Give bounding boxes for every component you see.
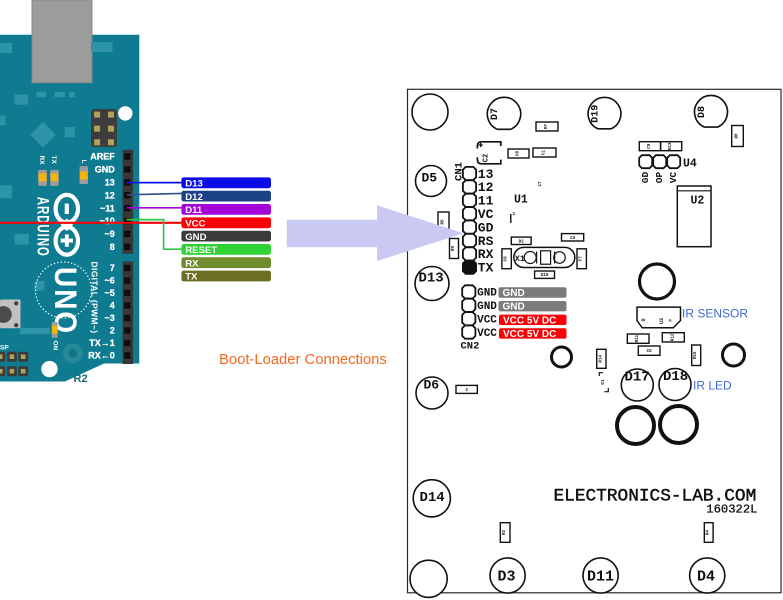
U1 pin1 mark [510, 214, 512, 223]
svg-text:O: O [641, 318, 647, 321]
svg-text:D4: D4 [697, 569, 715, 586]
svg-text:ON: ON [52, 341, 59, 351]
resistor R14 [597, 349, 606, 368]
svg-text:D13: D13 [185, 179, 203, 190]
capacitor C4 [562, 234, 584, 241]
capacitor C8 [508, 149, 529, 158]
svg-text:L: L [80, 160, 87, 164]
svg-text:D3: D3 [498, 569, 516, 586]
svg-text:D11: D11 [185, 205, 203, 216]
TX LED [50, 170, 59, 186]
svg-text:D11: D11 [587, 569, 614, 586]
resistor R8 [732, 126, 744, 147]
via ring left [552, 347, 572, 367]
pin labels strip2 [88, 263, 115, 361]
svg-text:VC: VC [668, 172, 679, 184]
LED D7 [487, 97, 520, 129]
svg-text:AREF: AREF [90, 152, 115, 162]
svg-text:SP: SP [0, 344, 9, 351]
svg-text:C8: C8 [517, 151, 521, 157]
svg-text:13: 13 [105, 178, 115, 188]
svg-text:D14: D14 [420, 490, 445, 506]
CN1 pad GD [463, 221, 476, 234]
LED D3 [490, 558, 525, 593]
svg-text:U1: U1 [514, 194, 528, 207]
svg-text:CN2: CN2 [461, 341, 480, 353]
svg-text:GND: GND [503, 288, 525, 299]
svg-text:IR LED: IR LED [693, 378, 732, 392]
pin header strip 1 [123, 150, 134, 254]
LED labels [38, 156, 87, 166]
IR sensor body U3 [637, 307, 681, 328]
svg-text:D6: D6 [424, 378, 440, 393]
svg-text:U2: U2 [691, 195, 705, 208]
svg-text:TX→1: TX→1 [89, 338, 115, 348]
svg-text:C2: C2 [482, 154, 490, 162]
svg-text:GND: GND [95, 165, 116, 175]
IR LED ring 1 [617, 407, 654, 444]
svg-text:~10: ~10 [100, 216, 115, 226]
svg-text:IR SENSOR: IR SENSOR [682, 306, 748, 320]
svg-text:VCC 5V DC: VCC 5V DC [503, 315, 556, 326]
net label D11 [181, 204, 271, 216]
svg-text:D2: D2 [519, 240, 525, 244]
svg-text:C7: C7 [580, 256, 584, 262]
svg-text:01: 01 [600, 379, 606, 385]
LED D4 [690, 558, 725, 593]
big arrow [287, 205, 464, 261]
CN1 pad 12 [463, 180, 476, 193]
svg-text:GND: GND [503, 302, 525, 313]
net label D13 [181, 177, 271, 189]
net label GND (pcb) [499, 287, 567, 299]
svg-text:RX←0: RX←0 [88, 351, 115, 361]
svg-text:C1: C1 [543, 150, 547, 156]
CN1 pad TX [463, 261, 476, 274]
svg-text:R2: R2 [74, 373, 88, 385]
svg-text:C9: C9 [648, 143, 652, 149]
net label TX [181, 271, 271, 283]
capacitor C5 [638, 346, 660, 355]
CN2 pad GND [462, 299, 475, 312]
svg-text:D5: D5 [422, 171, 438, 186]
LED D14 [413, 480, 450, 517]
net label RX [181, 257, 271, 269]
svg-text:TX: TX [50, 156, 57, 165]
capacitor C1 [533, 148, 556, 157]
svg-text:U3: U3 [659, 318, 665, 324]
svg-text:R15: R15 [694, 351, 698, 359]
resistor R3 [500, 523, 510, 543]
svg-text:8: 8 [110, 242, 115, 252]
resistor R12 [662, 333, 684, 342]
CN2 pad VCC [462, 326, 475, 339]
svg-text:D19: D19 [591, 105, 602, 123]
diode D2 [511, 237, 531, 244]
svg-text:Boot-Loader Connections: Boot-Loader Connections [219, 352, 387, 368]
capacitor C2 (electrolytic silk) [477, 142, 500, 164]
ICSP header [91, 109, 117, 147]
svg-text:VCC: VCC [185, 219, 205, 230]
CN1 pad RX [463, 247, 476, 260]
net label D12 [181, 191, 271, 203]
resistor R4 [704, 523, 713, 543]
svg-text:D13: D13 [419, 271, 444, 287]
Arduino UNO board [0, 35, 139, 382]
svg-text:GND: GND [477, 288, 497, 300]
U4 pad OP [653, 155, 666, 168]
U4 pad GD [639, 155, 652, 168]
LED D11 (pcb) [583, 558, 618, 593]
svg-text:GND: GND [477, 301, 497, 313]
wire D11 (purple) [127, 207, 182, 209]
CN1 pad 11 [463, 194, 476, 207]
LED D19 [588, 97, 621, 128]
U4 pad VC [667, 155, 680, 168]
svg-text:160322L: 160322L [706, 503, 757, 517]
svg-text:1: 1 [513, 211, 516, 217]
net label VCC [181, 217, 271, 229]
capacitor C7 [577, 249, 586, 269]
reset button [0, 300, 21, 329]
svg-text:R3: R3 [503, 530, 507, 536]
resistor R7 [536, 122, 558, 131]
svg-text:R12: R12 [671, 333, 675, 341]
svg-text:R14: R14 [599, 355, 603, 363]
svg-text:R5: R5 [442, 219, 446, 225]
capacitor C9 [639, 142, 660, 151]
svg-text:C6: C6 [505, 256, 509, 262]
resistor R5 (under arrow) [438, 212, 449, 232]
svg-text:R8: R8 [736, 133, 740, 139]
net label GND 2 (pcb) [499, 301, 567, 313]
L LED [80, 166, 89, 184]
IR sensor lens ring [640, 264, 675, 299]
svg-text:2: 2 [110, 326, 115, 336]
svg-text:C4: C4 [570, 237, 576, 241]
ON LED [52, 322, 58, 338]
svg-text:~9: ~9 [105, 229, 115, 239]
RX LED [38, 170, 47, 186]
net label VCC 5V DC 2 [499, 328, 567, 340]
svg-text:U4: U4 [683, 158, 697, 171]
LED D13 (pcb) [415, 267, 449, 301]
svg-text:C5: C5 [647, 350, 653, 354]
diode D10 [535, 271, 555, 278]
mounting hole bottom-left [410, 560, 447, 597]
net label GND [181, 231, 271, 243]
svg-text:R7: R7 [545, 124, 549, 130]
LED D8 [695, 95, 728, 127]
resistor R2 (pcb) [456, 385, 477, 393]
resistor R11 [627, 334, 649, 343]
svg-text:D7: D7 [490, 108, 501, 120]
svg-text:12: 12 [105, 190, 115, 200]
UNO logo [36, 262, 92, 318]
wire VCC (red, runs off left edge) [0, 222, 181, 224]
LED D6 [416, 377, 448, 409]
capacitor C6 [502, 249, 511, 269]
svg-text:X1: X1 [515, 254, 525, 264]
svg-text:R4: R4 [707, 530, 711, 536]
CN1 pad 13 [463, 167, 476, 180]
net label VCC 5V DC [499, 315, 567, 327]
inductor L1 silk [599, 373, 608, 392]
svg-text:OP: OP [654, 172, 665, 184]
svg-text:R11: R11 [636, 334, 640, 342]
pin labels strip1 [90, 152, 115, 252]
svg-text:4: 4 [110, 301, 115, 311]
svg-text:R9: R9 [452, 246, 456, 252]
LED D17 [621, 369, 653, 401]
svg-text:RESET: RESET [185, 245, 217, 256]
svg-text:17: 17 [539, 181, 543, 187]
svg-text:7: 7 [110, 263, 115, 273]
crystal X1 [514, 247, 575, 267]
LED D18 [659, 369, 691, 401]
CN1 pad VC [463, 207, 476, 220]
svg-text:GD: GD [640, 172, 651, 184]
svg-text:D18: D18 [663, 369, 688, 385]
wire D12 (navy) [127, 193, 181, 194]
svg-text:~11: ~11 [100, 203, 115, 213]
mounting hole (top) [118, 106, 132, 120]
mounting hole top-left [412, 94, 448, 130]
svg-text:TX: TX [478, 261, 494, 276]
svg-text:~6: ~6 [105, 276, 115, 286]
resistor R9 [450, 239, 459, 259]
svg-text:~3: ~3 [105, 313, 115, 323]
pin header strip 2 [123, 262, 134, 365]
svg-text:DIGITAL (PWM~): DIGITAL (PWM~) [90, 262, 100, 334]
svg-text:D8: D8 [697, 106, 708, 118]
LED D5 [416, 166, 447, 197]
ic U2 [677, 186, 711, 247]
wire RESET (green) [127, 220, 182, 250]
svg-text:TX: TX [185, 272, 198, 283]
ARDUINO logo (infinity) [56, 195, 78, 255]
CN2 pad GND [462, 285, 475, 298]
CN1 pad RS [463, 234, 476, 247]
resistor R15 [692, 345, 701, 366]
svg-text:D12: D12 [185, 192, 203, 203]
svg-text:D10: D10 [541, 274, 549, 278]
USB connector [32, 0, 92, 83]
svg-text:VCC: VCC [477, 315, 497, 327]
svg-text:GND: GND [185, 232, 206, 243]
svg-text:VCC: VCC [477, 328, 497, 340]
svg-text:R13: R13 [669, 142, 673, 150]
svg-text:D17: D17 [625, 370, 650, 386]
net label RESET [181, 244, 271, 256]
IR LED ring 2 [660, 406, 697, 443]
svg-text:~5: ~5 [105, 288, 115, 298]
svg-text:RX: RX [38, 156, 45, 166]
svg-text:ARDUINO: ARDUINO [33, 197, 52, 257]
PCB outline [408, 89, 782, 593]
smd components (silk) [0, 42, 113, 363]
CN2 pad VCC [462, 312, 475, 325]
mounting hole (bottom) [41, 361, 57, 377]
wire D13 (blue) [127, 182, 182, 184]
resistor R13 [661, 142, 682, 151]
svg-text:VCC 5V DC: VCC 5V DC [503, 329, 556, 340]
via ring right [723, 344, 745, 366]
svg-text:RX: RX [185, 258, 199, 269]
svg-text:>: > [668, 319, 674, 322]
